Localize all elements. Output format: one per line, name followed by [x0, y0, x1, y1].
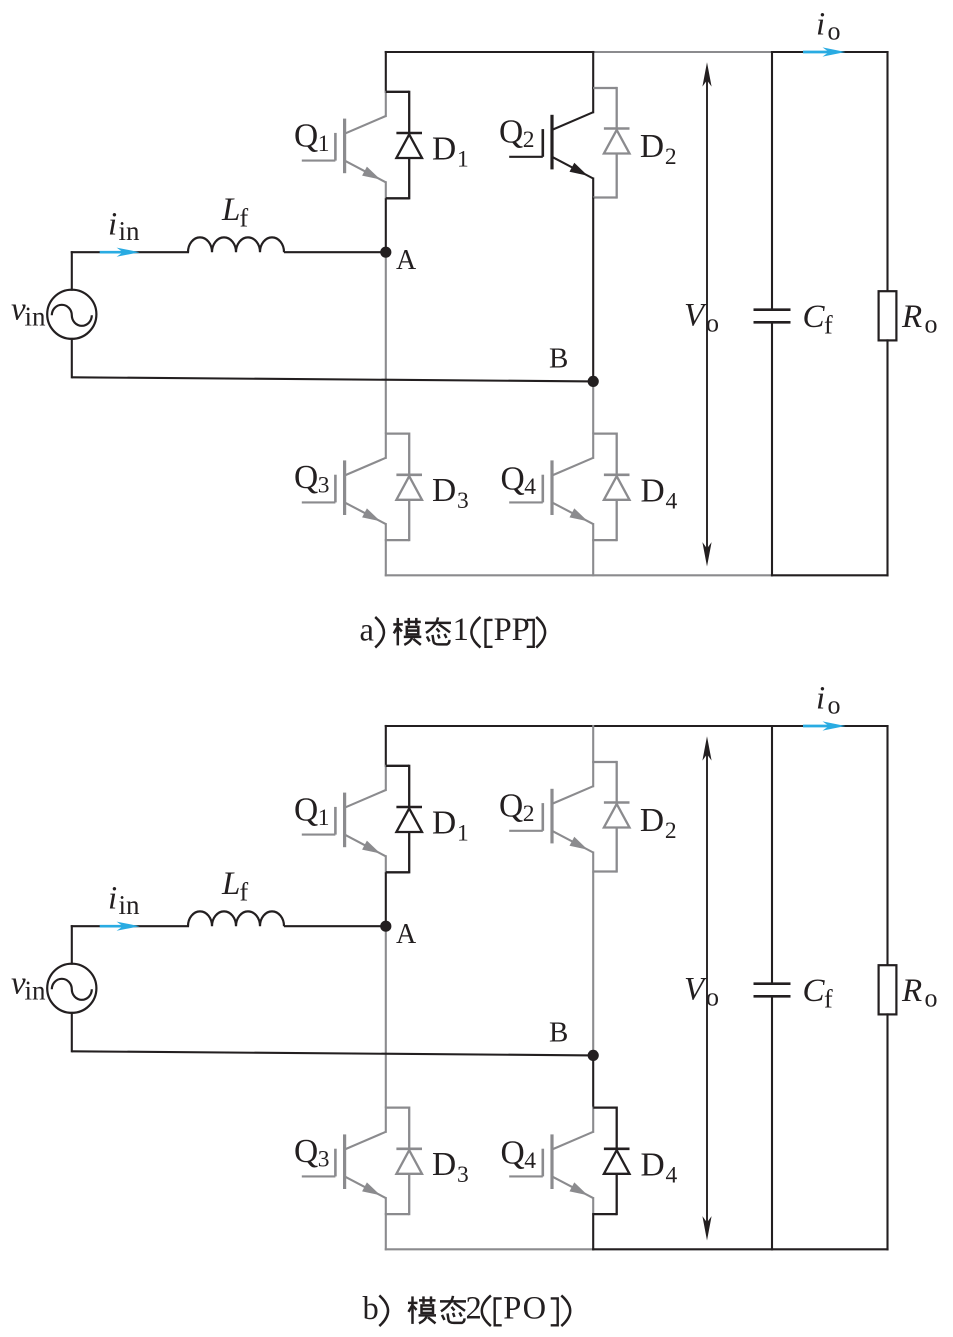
svg-text:PP: PP [494, 612, 530, 648]
capacitor Cf plates (fig a) [754, 310, 791, 323]
wire vin to inductor (fig b) [72, 925, 188, 927]
arrow Vo (fig a) [702, 62, 711, 566]
caption b close paren [561, 1296, 570, 1327]
wire Q4 bracket to bottom rail (fig a) [592, 540, 594, 575]
transistor Q1 (fig b) [302, 766, 386, 873]
wire Q2 bracket to node B (fig a) [592, 198, 594, 382]
caption a CJK mo [393, 618, 421, 646]
arrow iin current (fig b) [100, 922, 140, 931]
svg-text:o: o [925, 310, 938, 339]
svg-text:o: o [828, 17, 841, 46]
svg-text:B: B [549, 343, 568, 375]
source vin sine (fig b) [52, 979, 92, 1000]
wire bottom rail segment (fig b) [386, 1248, 593, 1250]
wire Q2 bracket to node B (fig b) [592, 872, 594, 1056]
source vin circle (fig b) [47, 964, 96, 1013]
svg-text:2: 2 [665, 144, 677, 170]
diode D1 (fig a) [386, 91, 422, 200]
diode D3 (fig b) [386, 1107, 422, 1216]
caption a open bracket [486, 620, 493, 647]
svg-text:1: 1 [318, 805, 330, 831]
svg-text:1: 1 [318, 131, 330, 157]
svg-text:D: D [432, 472, 456, 509]
wire vin bottom lead (fig b) [71, 1013, 73, 1051]
svg-text:b: b [363, 1291, 379, 1327]
arrow io current (fig a) [803, 47, 846, 56]
wire top rail segment (fig a) [772, 51, 888, 53]
svg-text:i: i [816, 7, 825, 43]
svg-text:o: o [706, 309, 719, 338]
wire vin top lead (fig b) [71, 926, 73, 964]
svg-text:in: in [25, 302, 47, 332]
capacitor Cf plates (fig b) [754, 984, 791, 997]
diode D4 (fig b) [593, 1107, 629, 1216]
svg-text:L: L [221, 866, 240, 902]
caption a close paren [536, 617, 545, 648]
svg-text:in: in [119, 216, 141, 246]
wire right leg top rail to Q2 (fig b) [592, 726, 594, 762]
wire Ro leg lower (fig b) [886, 1014, 888, 1249]
wire inductor to node A (fig b) [284, 925, 386, 927]
wire bottom rail segment (fig a) [386, 574, 772, 576]
wire vin to inductor (fig a) [72, 251, 188, 253]
transistor Q3 (fig a) [302, 434, 386, 540]
wire Ro leg upper (fig b) [886, 726, 888, 965]
svg-text:2: 2 [466, 1291, 482, 1327]
svg-text:D: D [432, 1146, 456, 1183]
svg-text:1: 1 [453, 612, 469, 648]
svg-text:PO: PO [503, 1291, 547, 1327]
caption b CJK mo [408, 1296, 436, 1324]
svg-text:i: i [108, 881, 117, 917]
svg-text:D: D [640, 128, 664, 165]
svg-text:Q: Q [499, 788, 523, 825]
inductor Lf (fig a) [188, 237, 284, 252]
wire Cf leg upper (fig a) [771, 52, 773, 310]
source vin sine (fig a) [52, 305, 92, 326]
wire left leg top rail to D1 bracket (fig b) [385, 726, 387, 766]
transistor Q3 (fig b) [302, 1108, 386, 1215]
svg-text:R: R [901, 973, 922, 1009]
arrow Vo (fig b) [702, 736, 711, 1240]
svg-text:V: V [684, 972, 708, 1008]
transistor Q4 (fig b) [509, 1108, 593, 1215]
wire node B to Q4 bracket (fig a) [592, 381, 594, 433]
svg-text:A: A [396, 919, 417, 950]
svg-text:3: 3 [457, 488, 469, 514]
svg-text:4: 4 [524, 474, 536, 500]
wire Ro leg lower (fig a) [886, 340, 888, 575]
wire Q3 bracket to bottom rail (fig a) [385, 540, 387, 575]
svg-text:4: 4 [666, 1163, 678, 1189]
wire top rail segment (fig b) [386, 725, 772, 727]
node A dot (fig a) [380, 247, 391, 258]
svg-text:1: 1 [457, 147, 469, 173]
node B dot (fig b) [588, 1050, 599, 1061]
svg-text:1: 1 [457, 821, 469, 847]
svg-text:Q: Q [294, 118, 318, 155]
wire top rail segment (fig b) [772, 725, 888, 727]
wire left leg top rail to D1 bracket (fig a) [385, 52, 387, 92]
svg-text:D: D [640, 802, 664, 839]
svg-text:i: i [816, 681, 825, 717]
svg-text:2: 2 [665, 818, 677, 844]
svg-text:f: f [240, 204, 249, 233]
caption b open bracket [495, 1298, 502, 1325]
svg-text:Q: Q [294, 1133, 318, 1170]
svg-text:D: D [641, 473, 665, 510]
svg-text:2: 2 [523, 127, 535, 153]
transistor Q2 (fig b) [509, 762, 593, 872]
wire Ro leg upper (fig a) [886, 52, 888, 291]
transistor Q4 (fig a) [509, 434, 593, 540]
wire Cf leg lower (fig b) [771, 996, 773, 1249]
svg-text:in: in [25, 976, 47, 1006]
wire vin bottom lead (fig a) [71, 339, 73, 377]
wire node B to Q4 bracket (fig b) [592, 1055, 594, 1107]
wire node A to Q3 bracket (fig a) [385, 252, 387, 433]
wire Q4 bracket to bottom rail (fig b) [592, 1214, 594, 1249]
svg-text:Q: Q [499, 114, 523, 151]
svg-text:Q: Q [501, 1135, 525, 1172]
svg-text:4: 4 [524, 1148, 536, 1174]
svg-text:o: o [706, 983, 719, 1012]
svg-text:f: f [240, 878, 249, 907]
svg-text:Q: Q [501, 461, 525, 498]
svg-text:f: f [824, 311, 833, 340]
svg-text:D: D [432, 131, 456, 168]
wire node A to Q3 bracket (fig b) [385, 926, 387, 1107]
svg-text:2: 2 [523, 801, 535, 827]
svg-text:D: D [432, 805, 456, 842]
caption b open paren [482, 1296, 491, 1327]
node B dot (fig a) [588, 376, 599, 387]
resistor Ro body (fig b) [879, 965, 897, 1014]
wire bottom rail segment (fig a) [772, 574, 888, 576]
svg-text:f: f [824, 985, 833, 1014]
svg-text:L: L [221, 192, 240, 228]
diode D3 (fig a) [386, 433, 422, 542]
svg-text:a: a [360, 613, 374, 649]
svg-text:V: V [684, 298, 708, 334]
svg-text:3: 3 [318, 1147, 330, 1173]
svg-text:B: B [549, 1017, 568, 1049]
svg-text:C: C [803, 973, 826, 1009]
wire vin to node B (fig a) [72, 377, 593, 381]
svg-text:o: o [925, 984, 938, 1013]
svg-text:Q: Q [294, 792, 318, 829]
wire inductor to node A (fig a) [284, 251, 386, 253]
svg-text:Q: Q [294, 459, 318, 496]
svg-text:R: R [901, 299, 922, 335]
caption a CJK tai [425, 617, 451, 644]
svg-text:3: 3 [457, 1162, 469, 1188]
caption b prefix paren [379, 1296, 388, 1327]
caption a prefix paren [375, 617, 384, 648]
svg-text:in: in [119, 890, 141, 920]
node A dot (fig b) [380, 921, 391, 932]
wire vin top lead (fig a) [71, 252, 73, 290]
transistor Q1 (fig a) [302, 92, 386, 199]
wire top rail segment (fig a) [386, 51, 593, 53]
wire right leg top rail to Q2 (fig a) [592, 52, 594, 88]
resistor Ro body (fig a) [879, 291, 897, 340]
wire bottom rail segment (fig b) [772, 1248, 888, 1250]
svg-text:i: i [108, 207, 117, 243]
svg-text:4: 4 [666, 489, 678, 515]
wire D1 bracket to node A (fig b) [385, 872, 387, 926]
diode D2 (fig b) [593, 761, 629, 873]
caption b close bracket [551, 1298, 558, 1325]
diode D1 (fig b) [386, 765, 422, 874]
diode D4 (fig a) [593, 433, 629, 542]
svg-text:A: A [396, 245, 417, 276]
source vin circle (fig a) [47, 290, 96, 339]
inductor Lf (fig b) [188, 911, 284, 926]
wire Q3 bracket to bottom rail (fig b) [385, 1214, 387, 1249]
diode D2 (fig a) [593, 87, 629, 199]
svg-text:3: 3 [318, 473, 330, 499]
wire top rail segment (fig a) [593, 51, 772, 53]
wire vin to node B (fig b) [72, 1051, 593, 1055]
caption a close bracket [527, 620, 534, 647]
arrow io current (fig b) [803, 721, 846, 730]
caption a open paren [471, 617, 480, 648]
wire Cf leg upper (fig b) [771, 726, 773, 984]
svg-text:D: D [641, 1147, 665, 1184]
arrow iin current (fig a) [100, 248, 140, 257]
wire D1 bracket to node A (fig a) [385, 198, 387, 252]
caption b CJK tai [440, 1296, 466, 1323]
wire Cf leg lower (fig a) [771, 322, 773, 575]
svg-text:C: C [803, 299, 826, 335]
wire bottom rail segment (fig b) [593, 1248, 772, 1250]
transistor Q2 (fig a) [509, 88, 593, 198]
svg-text:o: o [828, 691, 841, 720]
